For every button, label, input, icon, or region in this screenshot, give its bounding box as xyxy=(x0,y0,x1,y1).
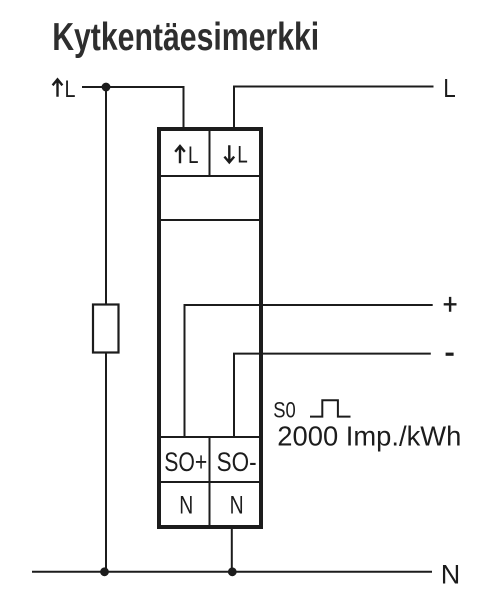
svg-text:N: N xyxy=(179,491,193,519)
svg-text:L: L xyxy=(65,76,76,103)
svg-text:L: L xyxy=(237,142,248,169)
svg-text:L: L xyxy=(443,73,456,103)
svg-text:N: N xyxy=(441,559,461,589)
svg-text:S0: S0 xyxy=(273,398,296,423)
svg-text:SO-: SO- xyxy=(217,447,257,477)
svg-text:L: L xyxy=(188,142,199,169)
svg-text:2000 Imp./kWh: 2000 Imp./kWh xyxy=(277,420,461,451)
svg-text:Kytkentäesimerkki: Kytkentäesimerkki xyxy=(52,16,319,59)
svg-text:N: N xyxy=(230,491,244,519)
svg-text:SO+: SO+ xyxy=(164,447,207,477)
